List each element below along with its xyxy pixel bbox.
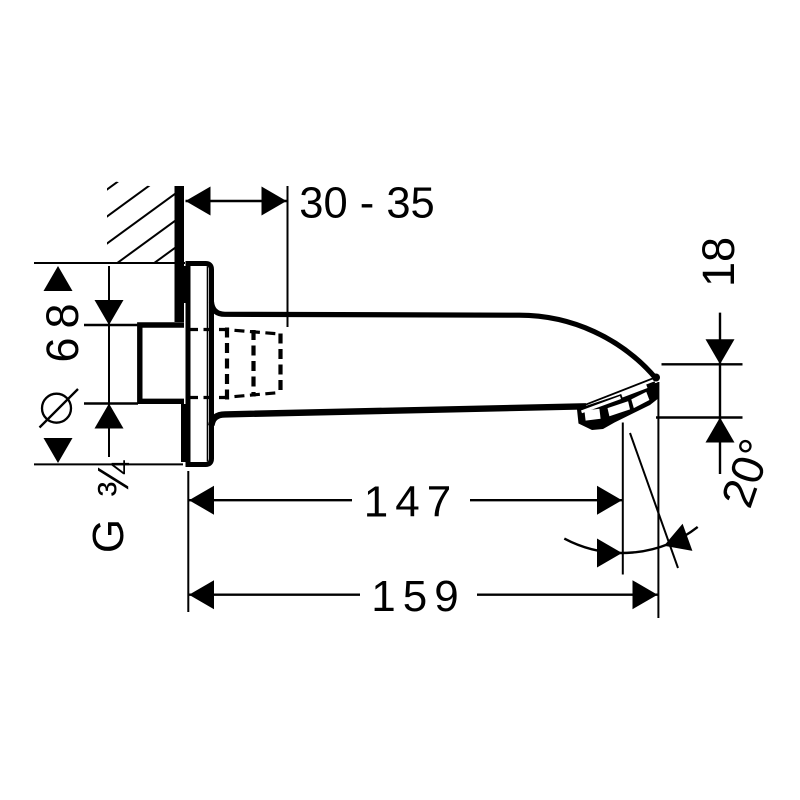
dimension 159 bbox=[189, 382, 658, 621]
svg-text:G: G bbox=[84, 519, 133, 553]
svg-text:68: 68 bbox=[37, 294, 88, 362]
spout bottom contour bbox=[212, 406, 587, 425]
dimension G 3/4 bbox=[84, 266, 138, 553]
svg-text:30 - 35: 30 - 35 bbox=[299, 180, 434, 228]
wall hatching bbox=[104, 136, 180, 300]
wall line bbox=[175, 186, 188, 462]
spout tip aerator assembly bbox=[577, 377, 658, 430]
dimension 30-35 bbox=[186, 180, 435, 328]
spout top contour bbox=[212, 302, 656, 378]
pipe stub G3/4 bbox=[140, 325, 184, 401]
dimension 20 degrees bbox=[564, 432, 781, 568]
dimension 147 bbox=[188, 423, 623, 613]
svg-text:147: 147 bbox=[364, 478, 458, 527]
dimension 18 bbox=[656, 237, 744, 474]
svg-text:18: 18 bbox=[693, 237, 744, 287]
hidden pipe dashed lines bbox=[188, 328, 281, 400]
escutcheon plate bbox=[188, 264, 212, 465]
svg-text:¾: ¾ bbox=[89, 459, 138, 497]
svg-text:159: 159 bbox=[371, 572, 465, 621]
dimension diameter 68 bbox=[34, 263, 185, 464]
